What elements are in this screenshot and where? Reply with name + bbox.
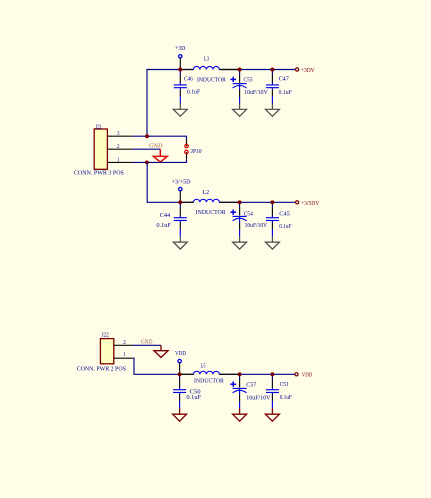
junction	[145, 160, 149, 164]
connector J22	[100, 339, 113, 364]
svg-text:+3D: +3D	[175, 46, 186, 52]
capacitor C44	[174, 203, 187, 237]
junction	[270, 200, 274, 204]
svg-text:0.1uF: 0.1uF	[280, 395, 293, 401]
svg-text:VDD: VDD	[175, 351, 187, 357]
junction	[145, 134, 149, 138]
wire +3D rail	[147, 70, 295, 137]
connector J21	[94, 129, 107, 169]
junction	[238, 68, 242, 72]
ground	[265, 103, 279, 116]
svg-text:0.1uF: 0.1uF	[156, 223, 171, 229]
svg-text:C44: C44	[160, 213, 171, 219]
wire pin2 to GND	[133, 344, 161, 346]
svg-text:2: 2	[117, 144, 120, 150]
junction	[270, 372, 274, 376]
svg-text:+3DV: +3DV	[301, 68, 316, 74]
ground GND	[160, 345, 162, 350]
svg-text:CONN. PWR 3 POS: CONN. PWR 3 POS	[74, 170, 124, 176]
wire VDD rail	[133, 358, 295, 374]
wire +3/+5D rail	[147, 162, 295, 202]
pin 1	[114, 357, 133, 359]
inductor L3	[180, 66, 240, 69]
ground	[265, 408, 279, 421]
ground	[265, 236, 279, 249]
capacitor C54	[230, 203, 246, 237]
pin 2	[107, 148, 132, 150]
capacitor C47	[266, 70, 279, 104]
wire pin3 to JP10	[132, 136, 186, 139]
svg-text:INDUCTOR: INDUCTOR	[197, 77, 226, 83]
ground	[233, 408, 247, 421]
node +3/5DV port	[296, 201, 299, 204]
ground	[233, 103, 247, 116]
pin 2	[114, 344, 133, 346]
junction	[238, 372, 242, 376]
svg-text:JP10: JP10	[191, 149, 202, 155]
ground	[173, 408, 187, 421]
svg-text:INDUCTOR: INDUCTOR	[196, 210, 226, 216]
svg-text:10uF/10V: 10uF/10V	[245, 223, 268, 229]
ground	[173, 236, 187, 249]
svg-text:VDD: VDD	[302, 372, 313, 378]
svg-text:J21: J21	[95, 124, 102, 130]
node +3DV port	[296, 68, 299, 71]
jumper JP10	[186, 140, 188, 147]
power symbol +3/+5D	[179, 187, 182, 202]
svg-text:10uF/10V: 10uF/10V	[246, 395, 271, 401]
svg-text:C51: C51	[280, 382, 289, 388]
ground	[233, 236, 247, 249]
ground GND	[159, 149, 161, 156]
power symbol +3D	[179, 55, 182, 70]
capacitor C45	[266, 203, 279, 237]
svg-text:10uF/10V: 10uF/10V	[244, 90, 268, 96]
pin 1	[107, 161, 132, 163]
svg-text:INDUCTOR: INDUCTOR	[194, 379, 224, 385]
svg-text:C57: C57	[246, 382, 256, 388]
inductor L5	[180, 371, 240, 374]
svg-text:2: 2	[123, 340, 126, 346]
svg-text:C45: C45	[279, 211, 290, 217]
wire pin2 to GND	[132, 148, 160, 150]
svg-text:C47: C47	[279, 76, 289, 82]
capacitor C50	[173, 375, 186, 409]
junction	[178, 372, 182, 376]
svg-text:1: 1	[123, 352, 126, 358]
svg-text:C54: C54	[244, 211, 253, 217]
svg-text:1: 1	[117, 157, 120, 163]
svg-text:GND: GND	[141, 340, 153, 346]
svg-text:C55: C55	[244, 77, 253, 83]
node VDD port	[295, 373, 298, 376]
junction	[238, 200, 242, 204]
inductor L2	[180, 199, 240, 202]
svg-text:0.1uF: 0.1uF	[186, 395, 201, 401]
svg-text:0.1uF: 0.1uF	[187, 89, 201, 95]
svg-text:L2: L2	[202, 190, 209, 196]
svg-text:L3: L3	[204, 57, 209, 63]
capacitor C51	[266, 375, 279, 409]
capacitor C55	[230, 70, 246, 104]
svg-text:+3/5DV: +3/5DV	[301, 201, 320, 207]
svg-text:+3/+5D: +3/+5D	[172, 179, 192, 185]
junction	[178, 68, 182, 72]
svg-text:0.1uF: 0.1uF	[279, 224, 292, 230]
svg-text:J22: J22	[102, 333, 109, 339]
junction	[270, 68, 274, 72]
svg-text:L5: L5	[201, 364, 206, 370]
svg-text:C46: C46	[184, 76, 193, 82]
svg-text:3: 3	[117, 131, 120, 137]
svg-text:GND: GND	[149, 144, 163, 150]
svg-text:CONN. PWR 2 POS: CONN. PWR 2 POS	[77, 366, 126, 372]
pin 3	[107, 135, 132, 137]
ground	[173, 103, 187, 116]
capacitor C46	[174, 70, 187, 104]
wire pin1	[132, 159, 186, 162]
capacitor C57	[230, 375, 246, 409]
junction	[178, 200, 182, 204]
power symbol VDD	[178, 359, 181, 374]
svg-text:0.1uF: 0.1uF	[279, 90, 293, 96]
